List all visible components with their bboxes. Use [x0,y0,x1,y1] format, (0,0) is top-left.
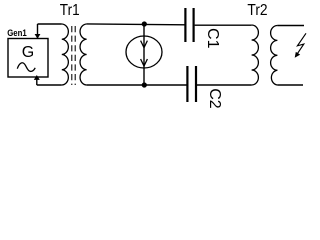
svg-text:C1: C1 [204,28,221,49]
svg-text:C2: C2 [206,88,223,109]
svg-text:Gen1: Gen1 [7,28,27,38]
svg-text:Tr2: Tr2 [247,2,267,19]
svg-text:G: G [22,44,34,61]
svg-text:Tr1: Tr1 [60,2,80,19]
